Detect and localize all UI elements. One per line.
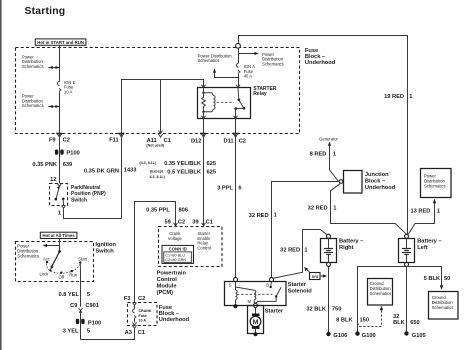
connector C9 C901 (70, 303, 99, 313)
wire below IGN A fuse to relay (238, 74, 240, 88)
svg-text:Schematics: Schematics (262, 62, 284, 67)
ground distribution schematics box (middle) (368, 279, 393, 306)
svg-text:Acc: Acc (43, 257, 50, 262)
svg-text:BLK: BLK (393, 320, 406, 326)
svg-text:Voltage: Voltage (168, 236, 183, 241)
svg-text:G106: G106 (333, 333, 347, 339)
svg-text:0.8 YEL: 0.8 YEL (59, 292, 80, 298)
svg-text:19 RED: 19 RED (384, 94, 404, 100)
svg-text:Generator: Generator (319, 136, 338, 141)
wire IGN E feed vertical (59, 46, 61, 82)
node branch left power distribution up-arrow (213, 68, 239, 77)
svg-text:C2=80 GRN: C2=80 GRN (165, 258, 186, 262)
label 0.35 PNK 639 (32, 162, 72, 168)
ground G106 (326, 332, 347, 339)
PCM U2 (dashed box) (159, 227, 223, 267)
svg-text:59: 59 (164, 220, 170, 226)
label (Except 4.3, 8.1L) 0.5 YEL/BLK 625 (150, 169, 217, 179)
battery right box (321, 239, 337, 263)
solenoid contact switch (256, 282, 281, 304)
label power distribution schematics (above relay) (198, 53, 233, 63)
label 0.35 PPL 806 (146, 207, 188, 213)
svg-text:C2: C2 (63, 138, 70, 144)
svg-text:(PCM): (PCM) (157, 290, 174, 296)
svg-text:13 RED: 13 RED (410, 208, 430, 214)
svg-text:C9: C9 (70, 303, 77, 309)
node solenoid M terminal (254, 303, 258, 307)
ground distribution schematics box (right) (429, 292, 459, 320)
svg-text:Hot in START and RUN: Hot in START and RUN (37, 40, 84, 45)
svg-text:Hot at All Times: Hot at All Times (42, 233, 75, 238)
svg-text:C1: C1 (206, 220, 213, 226)
label Hot at All Times (40, 232, 77, 238)
node Start (78, 257, 88, 264)
svg-text:5: 5 (87, 328, 90, 334)
junction block underhood (339, 171, 362, 194)
label 3 PPL 6 (217, 186, 241, 192)
CONN ID table (162, 245, 194, 263)
node B+ terminal circle (236, 43, 241, 48)
label park/neutral position PNP switch (71, 185, 106, 203)
svg-text:C901: C901 (85, 303, 99, 309)
svg-text:Schematics: Schematics (370, 291, 392, 296)
connector A3 C1 (125, 326, 145, 336)
dashed reference arrow to ground distribution box (358, 306, 384, 327)
wire B+ down to IGN A fuse (238, 48, 240, 63)
svg-text:C2: C2 (178, 220, 185, 226)
dashed actuator link solenoid (237, 293, 273, 295)
ground G105 (404, 331, 425, 339)
svg-text:Control: Control (197, 245, 211, 250)
svg-text:Underhood: Underhood (305, 60, 336, 66)
svg-text:Fuse: Fuse (305, 48, 318, 54)
svg-text:639: 639 (63, 162, 72, 168)
svg-text:Ignition: Ignition (95, 242, 116, 248)
wire A11 stub (not used) (159, 80, 163, 134)
label Fuse Block - Underhood (crank) (159, 305, 190, 323)
fuse block underhood (dashed outline) (16, 48, 300, 134)
svg-text:1: 1 (333, 152, 336, 158)
svg-text:Switch: Switch (95, 249, 114, 255)
svg-text:32 RED: 32 RED (280, 248, 300, 254)
connector P100 (grommet) (55, 150, 80, 157)
PCM pin 59 C2 (164, 220, 185, 226)
starter motor box (248, 306, 284, 334)
label Ignition Switch (95, 242, 116, 255)
svg-text:P100: P100 (67, 151, 80, 157)
svg-text:Schematics: Schematics (22, 64, 44, 69)
label 8 RED 1 (310, 152, 336, 158)
svg-text:1: 1 (437, 208, 440, 214)
label Hot in START and RUN (35, 39, 86, 45)
svg-text:Battery –: Battery – (417, 238, 441, 244)
battery right cell symbol (324, 239, 333, 263)
label power distribution schematics (lower left) (22, 94, 44, 109)
svg-text:4.3, 8.1L): 4.3, 8.1L) (150, 175, 166, 179)
svg-text:F11: F11 (109, 138, 119, 144)
label Junction Block - Underhood (365, 172, 396, 191)
node branch right power distribution arrow (239, 52, 259, 55)
svg-text:10 A: 10 A (64, 90, 73, 95)
svg-text:50: 50 (444, 276, 450, 282)
wire 6 PPL from D11 to starter solenoid S (235, 134, 237, 278)
connector D11 C2 (223, 134, 246, 145)
svg-text:10 A: 10 A (139, 318, 147, 322)
svg-text:Starter: Starter (288, 282, 307, 288)
label 32 RED 1 (junction to battery) (308, 206, 337, 212)
svg-text:8Y8: 8Y8 (312, 275, 318, 279)
svg-text:C2: C2 (239, 139, 246, 145)
svg-text:3 PPL: 3 PPL (217, 186, 233, 192)
svg-text:Schematics: Schematics (424, 184, 446, 189)
relay switch blade (open) (234, 101, 245, 110)
battery left cell symbol (402, 239, 411, 263)
wire 32 BLK 750 battery right to G106 (328, 266, 330, 332)
svg-text:Starter: Starter (265, 308, 284, 314)
svg-text:Start: Start (78, 257, 88, 262)
node Lock (40, 269, 52, 276)
svg-text:Run: Run (69, 273, 77, 278)
power distribution schematics box (right) (421, 169, 452, 198)
wire below IGN E fuse (59, 92, 61, 134)
wire 32 RED junction block to battery left (331, 183, 407, 234)
relay pin 87 (switch out) to D11 (234, 109, 238, 134)
label Fuse Block - Underhood (top right) (305, 48, 336, 66)
node battery right negative terminal (327, 262, 331, 266)
starter relay U1 box (198, 86, 277, 119)
wire below C901 (80, 313, 82, 340)
connector F11 (109, 134, 124, 144)
wire 5 YEL from Start (79, 262, 81, 306)
label 32 BLK 750 (306, 306, 341, 312)
label pin 1 (58, 211, 61, 217)
label power distribution schematics (right of B+) (262, 52, 284, 67)
svg-text:Schematics: Schematics (17, 253, 39, 258)
svg-text:Position (PNP): Position (PNP) (71, 191, 106, 197)
svg-text:1: 1 (274, 212, 277, 218)
svg-text:0.5 YEL/BLK: 0.5 YEL/BLK (167, 169, 202, 175)
svg-text:0.35 DK GRN: 0.35 DK GRN (84, 168, 119, 174)
wire 32 BLK 650 battery left to G105 (406, 266, 408, 331)
relay pin 85 (coil bottom) to D12 (202, 112, 206, 134)
svg-text:Control: Control (157, 277, 178, 283)
switch position arc (dashed) (47, 263, 81, 273)
wire to CRANK fuse A3 (81, 328, 135, 339)
svg-text:Schematics: Schematics (432, 305, 454, 310)
svg-text:D12: D12 (191, 139, 201, 145)
node solenoid B terminal (266, 278, 273, 288)
svg-text:0.35 PPL: 0.35 PPL (146, 207, 170, 213)
svg-text:F9: F9 (49, 138, 56, 144)
node coil bottom junction (202, 111, 204, 113)
label 8 BLK 150 (336, 318, 369, 324)
svg-text:(Not used): (Not used) (146, 144, 165, 148)
svg-text:Schematics: Schematics (22, 103, 44, 108)
relay pin 30 (switch common from fuse) (236, 85, 240, 99)
svg-text:0.35 YEL/BLK: 0.35 YEL/BLK (164, 161, 202, 167)
svg-text:8 RED: 8 RED (310, 152, 327, 158)
label 5 BLK 50 (424, 276, 451, 282)
label (4.3, 8.1L) 0.35 YEL/BLK 625 (140, 161, 217, 167)
svg-text:G105: G105 (412, 333, 426, 339)
connector F3 C2 (124, 296, 146, 302)
svg-text:3 YEL: 3 YEL (63, 328, 79, 334)
svg-text:12: 12 (50, 177, 56, 183)
svg-text:Switch: Switch (71, 197, 87, 203)
svg-text:150: 150 (360, 318, 370, 324)
label Battery - Right (339, 238, 363, 251)
node ignition feed junction (58, 250, 61, 253)
svg-text:Schematics: Schematics (198, 58, 220, 63)
battery left box (399, 239, 415, 263)
wire junction block to starter B (272, 182, 340, 278)
node coil top junction (202, 92, 204, 94)
splice callout 8Y8 (304, 267, 327, 280)
wire 8 RED generator to junction block (330, 147, 339, 182)
node starter case ground (253, 332, 257, 336)
CRANK fuse block (dashed box) (128, 303, 158, 326)
label power distribution schematics (ignition) (17, 244, 39, 259)
svg-text:32 BLK: 32 BLK (306, 306, 326, 312)
svg-text:Module: Module (157, 284, 177, 290)
wire 625 YEL/BLK from D12 to PCM pin 39 (203, 134, 205, 226)
node Acc (43, 257, 50, 264)
wire 19 RED riser from B+ node (239, 36, 408, 235)
svg-text:32: 32 (393, 314, 399, 320)
svg-text:F3: F3 (124, 296, 131, 302)
svg-text:Starting: Starting (25, 6, 66, 17)
svg-text:Fuse: Fuse (159, 305, 172, 311)
label Crank Voltage (168, 231, 183, 241)
svg-text:D11: D11 (223, 139, 233, 145)
svg-text:650: 650 (410, 320, 420, 326)
svg-text:M: M (253, 319, 259, 326)
label Battery - Left (417, 238, 441, 251)
wire PNP pin1 to F11 line (64, 208, 122, 218)
label Generator with up arrow (319, 136, 338, 146)
svg-text:1: 1 (409, 94, 412, 100)
connector D12 (191, 134, 206, 145)
ignition switch (dashed box) (16, 242, 94, 282)
label 19 RED 1 (384, 94, 412, 100)
svg-text:G100: G100 (362, 333, 376, 339)
label 0.8 YEL 5 (59, 292, 91, 298)
svg-text:5 BLK: 5 BLK (424, 276, 441, 282)
svg-text:Off: Off (59, 274, 65, 279)
node battery right positive terminal (327, 234, 331, 238)
svg-text:1: 1 (333, 206, 336, 212)
svg-text:Underhood: Underhood (365, 185, 396, 191)
svg-text:M: M (248, 299, 252, 304)
coil L1 (relay winding) (204, 93, 216, 112)
node branch arrow to power distribution (43, 244, 60, 247)
PNP switch internal (55, 184, 66, 209)
svg-text:B: B (266, 282, 269, 287)
svg-text:5: 5 (87, 292, 90, 298)
svg-text:Lock: Lock (40, 271, 50, 276)
ground G100 (355, 331, 375, 339)
label 32 RED 1 (starter feed) (249, 212, 277, 219)
svg-text:Left: Left (417, 245, 428, 251)
svg-text:625: 625 (207, 161, 217, 167)
node Off (59, 272, 65, 280)
svg-text:Right: Right (339, 245, 354, 251)
label 0.35 DK GRN 1433 (84, 167, 137, 174)
PCM pin 39 C1 (192, 220, 213, 226)
motor M1 (250, 307, 261, 332)
svg-text:Block –: Block – (305, 54, 325, 60)
node branch upper power distribution arrow (49, 66, 60, 69)
label Starter Enable Relay Control (197, 231, 211, 250)
solenoid hold-in winding (236, 287, 256, 304)
svg-text:(4.3, 8.1L): (4.3, 8.1L) (140, 161, 157, 165)
wire 13 RED battery left to power distribution (408, 199, 436, 235)
svg-text:Fuse: Fuse (139, 314, 147, 318)
svg-text:CONN ID: CONN ID (169, 247, 187, 252)
starter solenoid box (225, 282, 287, 306)
svg-text:Battery –: Battery – (339, 238, 363, 244)
fuse CRANK 10A (133, 303, 152, 326)
label Starter Solenoid (288, 282, 313, 295)
relay pin 86 (coil top) (202, 85, 206, 93)
svg-text:S: S (229, 282, 232, 287)
wire 639 PNK from F9 (59, 134, 61, 184)
label pin 12 (50, 177, 56, 183)
svg-text:Solenoid: Solenoid (288, 289, 313, 295)
wire battery left negative bus (358, 267, 444, 332)
svg-text:625: 625 (207, 169, 217, 175)
connector P100 (lower grommet) (76, 319, 101, 327)
connector A11 C1 (not used) (146, 134, 170, 148)
svg-text:Block –: Block – (159, 311, 179, 317)
node Run (69, 270, 77, 278)
node relay fixed contact (238, 99, 241, 102)
svg-text:32 RED: 32 RED (249, 213, 269, 219)
fuse IGN A 40A (237, 63, 256, 78)
svg-text:39: 39 (192, 220, 198, 226)
connector F9 C2 (49, 134, 70, 144)
dashed actuator link coil to switch (217, 101, 234, 103)
svg-text:1: 1 (304, 248, 307, 254)
svg-text:C2: C2 (138, 296, 145, 302)
node solenoid S terminal (229, 278, 238, 288)
node branch lower power distribution arrow (49, 105, 60, 108)
label 3 YEL 5 (63, 328, 90, 334)
svg-text:CRANK: CRANK (139, 309, 152, 313)
label 13 RED 1 (410, 208, 440, 214)
wire 1433 DK GRN from F11 (121, 134, 123, 219)
svg-text:1: 1 (58, 211, 61, 217)
resistor (relay parallel resistor) (202, 93, 206, 112)
svg-text:Park/Neutral: Park/Neutral (71, 185, 101, 191)
label 32 RED 1 (battery right to starter) (280, 248, 307, 254)
svg-text:Underhood: Underhood (159, 317, 190, 323)
svg-text:32 RED: 32 RED (308, 206, 328, 212)
svg-text:Block –: Block – (365, 179, 385, 185)
svg-text:Junction: Junction (365, 172, 389, 178)
svg-text:C1: C1 (138, 330, 145, 336)
wire fuse block internal: F11 riser to relay coil (122, 80, 204, 134)
svg-text:750: 750 (332, 306, 342, 312)
svg-text:(Except: (Except (150, 170, 164, 174)
node solenoid case ground (233, 304, 237, 308)
svg-text:C1: C1 (164, 138, 171, 144)
svg-text:0.35 PNK: 0.35 PNK (32, 162, 58, 168)
label Powertrain Control Module (PCM) (157, 271, 187, 297)
svg-text:6: 6 (238, 186, 241, 192)
svg-text:C1=80 BLU: C1=80 BLU (165, 254, 185, 258)
wire ignition feed (59, 239, 61, 252)
label 32 BLK 650 (393, 314, 420, 326)
ignition switch wiper (50, 252, 59, 270)
page left border (0, 0, 2, 350)
solenoid pull-in winding (236, 282, 238, 305)
svg-text:Powertrain: Powertrain (157, 271, 187, 277)
svg-text:40 A: 40 A (244, 74, 253, 79)
label power distribution schematics (upper left) (22, 54, 44, 69)
park/neutral position switch (dashed box) (50, 184, 68, 206)
wire 806 PPL from F3 to PCM (135, 202, 176, 303)
svg-text:806: 806 (179, 207, 189, 213)
node battery left positive terminal (405, 234, 409, 238)
wire battery right positive to starter B (273, 230, 327, 279)
node battery left negative terminal (405, 262, 409, 266)
svg-text:Relay: Relay (253, 91, 267, 97)
svg-text:1433: 1433 (124, 167, 137, 173)
fuse IGN E 10A (58, 80, 76, 95)
svg-text:8 BLK: 8 BLK (336, 318, 353, 324)
svg-text:P100: P100 (88, 320, 101, 326)
svg-text:A3: A3 (125, 330, 132, 336)
